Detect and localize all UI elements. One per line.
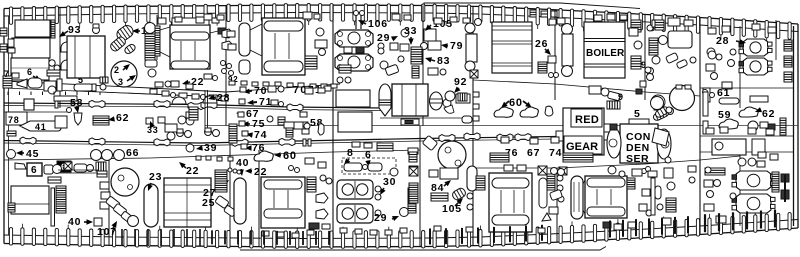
bar top boxes 333-420: [340, 228, 347, 233]
E1b connector and pentagons: [218, 28, 226, 34]
torpedo cylinder item 41: [20, 121, 61, 131]
starboard shaft coupling 1: [20, 137, 36, 144]
dark box pair 655: [655, 20, 664, 30]
E6 wedge: [583, 180, 585, 184]
starboard shaft coupling 5: [439, 134, 455, 141]
box and hatch below 66 circles: [99, 163, 105, 168]
fitting row y82 mid: [229, 81, 235, 85]
condensate pumps below condenser: [608, 166, 616, 174]
dark pump block far left: [3, 76, 12, 88]
small boxes row engine room y90: [150, 89, 157, 94]
long striped box 563: [563, 153, 593, 162]
transverse bulkhead x=423 upper: [422, 6, 424, 127]
floor line upper right: [473, 80, 700, 96]
floor line y118 mid: [380, 117, 473, 119]
wedge trough left: [15, 163, 26, 169]
scotch boiler SB2: [743, 58, 768, 75]
dark hatch box 705 lower: [705, 168, 725, 175]
pump cylinder right of 6 box: [44, 165, 53, 174]
boiler water drum left: [562, 24, 573, 35]
small boxes above boilers: [708, 28, 716, 34]
dark uptake junction: [339, 65, 351, 73]
pump cylinders in dashed box: [344, 163, 362, 171]
SB3 SB4 aux circles: [714, 180, 721, 187]
diagonal striped pipe below drum: [109, 35, 127, 52]
transverse bulkhead x=473 full: [472, 6, 474, 245]
starboard shaft coupling 2: [89, 138, 105, 145]
platform line y92 engine room: [100, 92, 226, 97]
boiler casing with BOILER text: [584, 22, 625, 78]
hull left edge: [3, 9, 5, 244]
svg-text:6: 6: [365, 149, 372, 161]
casing clutter boxes x530: [530, 10, 537, 17]
svg-text:92: 92: [454, 76, 467, 88]
svg-text:29: 29: [374, 212, 387, 224]
boiler B1 unit 2: [335, 54, 373, 71]
figure-8 pipes: [647, 68, 654, 75]
port shaft coupling 3: [154, 100, 170, 107]
svg-text:29: 29: [377, 32, 390, 44]
small circles lower-mid: [467, 193, 473, 199]
box for 26: [548, 56, 556, 63]
frame ticks top side: [9, 7, 12, 25]
scotch boiler inner walls upper: [700, 87, 793, 89]
circle pair right of E5: [551, 168, 558, 175]
car blob 2 under casing: [520, 107, 538, 117]
small circles x478: [475, 19, 482, 26]
svg-text:BOILER: BOILER: [586, 48, 625, 59]
tilted shapes near 645 y60: [666, 53, 679, 64]
small box left column: [557, 18, 565, 24]
coupling gear-condenser: [604, 124, 611, 140]
svg-text:26: 26: [535, 38, 548, 50]
vertical pipe x206: [204, 90, 206, 128]
white boxes x205 y75: [204, 74, 212, 79]
clutter column 663-690 lower: [665, 157, 671, 163]
pump cluster y125 right wing: [748, 121, 758, 131]
E2b turbine dome left: [379, 84, 391, 116]
xbox x409 lower: [409, 166, 418, 175]
transverse bulkhead x=259 lower: [258, 150, 260, 247]
main engine E2: [262, 18, 305, 75]
boxes 300-330 y155-172: [305, 158, 314, 164]
svg-text:60: 60: [283, 150, 297, 162]
E1b wedge: [160, 27, 170, 30]
pump circles row for 66: [91, 150, 102, 161]
tank rect upper-left C: [11, 58, 49, 80]
hull bottom sheer line: [4, 228, 798, 247]
svg-text:33: 33: [404, 25, 417, 37]
E2b dome right hatched: [430, 92, 443, 110]
dark hatch right of E6: [627, 178, 635, 189]
small boxes row mid y118: [267, 116, 273, 122]
car blob below 59: [719, 119, 738, 129]
main engine port E1: [67, 36, 105, 78]
circle in chain: [128, 216, 139, 227]
hatch box 478 lower: [476, 176, 485, 190]
main engine centre E2b: [392, 84, 428, 116]
hatch box top x47: [47, 70, 60, 76]
boxes x294 y122: [294, 122, 303, 129]
striped drum column x145: [145, 23, 156, 34]
tank rect upper-left B: [12, 38, 50, 58]
dark block below 78 box: [7, 131, 16, 136]
svg-text:74: 74: [549, 147, 562, 159]
starboard propeller shaft line: [4, 137, 556, 144]
E2 dark foundation: [305, 56, 317, 69]
boiler casing centre: [492, 22, 532, 73]
bottom band long bars right: [704, 214, 706, 232]
svg-text:78: 78: [8, 115, 20, 125]
transverse bulkhead x=645 upper: [644, 14, 646, 100]
hatch column right of tanks: [51, 20, 55, 38]
tilted chain below circle: [105, 196, 120, 210]
band boxes 430-470: [434, 18, 442, 24]
small boxes row mid y103: [271, 100, 278, 105]
tiny circle cluster x225: [221, 61, 226, 66]
hatch below 6 box: [48, 177, 61, 183]
bottom band long bars centre-right: [609, 221, 611, 238]
deck casing line bottom: [240, 247, 606, 251]
transverse bulkhead x=226 upper: [225, 6, 227, 126]
dark funnel blob: [631, 20, 641, 32]
band boxes 205-222: [204, 14, 212, 20]
hatch ladder x229: [229, 124, 237, 143]
centreline joint: [205, 125, 798, 127]
rect x752 y139: [752, 139, 765, 155]
hatch box right of E4: [307, 177, 316, 192]
svg-text:RED: RED: [575, 114, 599, 126]
svg-text:67: 67: [527, 147, 540, 159]
right column aux 628-645: [629, 28, 638, 36]
small boxes row mid y88: [268, 86, 276, 92]
boiler B1 unit 1: [335, 30, 373, 47]
xbox lower-left: [64, 162, 72, 170]
transverse bulkhead x=109 lower: [108, 160, 110, 245]
scotch boiler SB3: [736, 171, 771, 190]
hatch ladder x408 lower: [408, 188, 416, 213]
tank rect upper-left A: [15, 20, 50, 37]
boxes right column mid band: [300, 112, 307, 117]
capsule right of 5: [74, 84, 93, 91]
svg-text:22: 22: [254, 166, 267, 178]
left edge dark mark 1: [0, 28, 7, 36]
rounded box right of circle: [145, 60, 157, 67]
main engine lower-left E3: [164, 178, 211, 227]
car blob lower 60: [254, 151, 273, 161]
dark box at band 603: [603, 222, 611, 228]
xbox right of E5: [538, 166, 547, 175]
transverse bulkhead x=420 lower: [419, 126, 421, 247]
svg-text:105: 105: [442, 203, 462, 215]
dark boxes below right of E4: [309, 223, 319, 229]
aft engine E6 block: [585, 176, 627, 218]
E2 aux right cluster: [316, 28, 324, 36]
scotch boiler SB4: [736, 194, 771, 213]
dark box y124 x610: [610, 124, 617, 130]
pump column x100: [100, 182, 109, 189]
svg-text:45: 45: [26, 148, 39, 160]
svg-text:22: 22: [186, 165, 199, 177]
deck casing line top: [424, 3, 640, 9]
box and circle right of 33: [165, 124, 177, 132]
white boxes x703: [703, 88, 710, 102]
box x549 y19: [549, 19, 556, 25]
small aux right of B1: [378, 43, 384, 49]
box right of 41: [55, 116, 67, 128]
boxes right edge 333-420 lower: [408, 148, 418, 154]
small clutter above y90 row: [155, 82, 163, 87]
dark box x409 y152: [409, 152, 417, 162]
svg-text:6: 6: [27, 67, 33, 77]
shaft couplings x196 x209: [188, 102, 204, 109]
GEAR box: [564, 136, 602, 154]
capsule drum left of E3: [144, 184, 158, 227]
small circles below B1: [337, 77, 343, 83]
platform tick fittings left: [7, 92, 9, 96]
scotch boiler inner walls lower: [700, 151, 793, 153]
triangle x543 y216: [542, 213, 551, 221]
wall x776 upper: [775, 20, 777, 60]
svg-text:40: 40: [68, 216, 81, 228]
xbox x470: [470, 70, 478, 78]
dark capsule x490: [490, 153, 509, 162]
boiler front wall line y136: [700, 135, 793, 137]
xbox 559 lower: [559, 167, 567, 175]
aux cluster 650-698 y80-110: [640, 81, 646, 87]
elbow duct mid: [278, 117, 285, 125]
pentagon blobs right of E4: [316, 193, 328, 203]
scotch boiler SB1: [743, 39, 768, 56]
label 33 mid with boxes: [146, 118, 153, 124]
boxes y165 lower-mid: [504, 165, 513, 171]
SB aux circles: [730, 49, 736, 55]
svg-text:39: 39: [204, 142, 217, 154]
rounded box x463 y117: [462, 116, 472, 123]
E2 side drum lower: [239, 60, 250, 74]
box x549 y207: [549, 207, 558, 214]
svg-text:6: 6: [31, 165, 37, 176]
condenser body: [620, 124, 658, 163]
boxes at bar tops lower-mid: [262, 231, 269, 236]
hatch ladder x547: [547, 174, 555, 190]
main engine lower-mid E4: [261, 177, 305, 228]
dark hatch left of 5: [607, 101, 620, 109]
hatch box lower-left x96: [96, 162, 106, 171]
svg-text:23: 23: [149, 171, 162, 183]
xbox x409 y167: [409, 167, 418, 176]
tilted box left of distiller: [422, 135, 438, 150]
svg-text:SER: SER: [626, 153, 649, 165]
pipe line y112 left: [4, 111, 70, 113]
small boxes 690 lower: [688, 166, 696, 172]
uptake pipes above B1: [355, 13, 357, 29]
svg-text:83: 83: [437, 55, 450, 67]
dark hatch left of circle: [100, 77, 108, 83]
svg-text:93: 93: [68, 24, 81, 36]
tilted striped drum (item 1): [115, 23, 136, 43]
svg-text:8: 8: [347, 147, 354, 159]
boxes above boilers lower wing: [706, 128, 714, 134]
tank rect lower-left R3: [11, 186, 49, 214]
bulkhead boxes x474: [473, 92, 479, 97]
dark hatch column x215 lower: [215, 170, 227, 192]
drum right of E5: [539, 178, 547, 208]
svg-text:7: 7: [4, 69, 10, 79]
svg-text:71: 71: [259, 96, 272, 108]
svg-text:60: 60: [509, 97, 523, 109]
shaft coupling x472: [464, 133, 480, 140]
transverse bulkhead x=230 lower: [229, 126, 231, 246]
vertical pipes bottom band mid: [429, 229, 431, 245]
bar top boxes 430-550: [434, 226, 441, 231]
hatch tall box 83: [411, 47, 422, 64]
circles right of E4: [320, 175, 326, 181]
dark block left of R3: [8, 203, 15, 212]
starboard shaft coupling 4: [232, 139, 248, 146]
floor line lower left: [4, 150, 420, 160]
boxes 755-780 y152: [758, 152, 766, 158]
transverse bulkhead x=700 full: [699, 18, 701, 235]
vent mushroom above engine: [93, 27, 100, 34]
boxes circles row y160 right wing: [738, 158, 746, 166]
double circles x551: [549, 73, 554, 78]
big box y139 right wing: [712, 139, 746, 155]
long pipe lines above engine lower-left: [58, 169, 98, 171]
shaft flange pair x305: [303, 139, 306, 146]
clutter 700-740 lower: [705, 167, 711, 173]
boxed 6 lower-left: [27, 163, 42, 176]
vertical pipes bottom band left-mid: [211, 230, 213, 244]
long thin box y96: [54, 96, 77, 101]
svg-text:28: 28: [716, 35, 729, 47]
big pump circle 682: [670, 86, 695, 111]
right inner column hatch: [772, 172, 779, 192]
funnel small boxes top: [652, 20, 662, 27]
svg-text:40: 40: [236, 157, 249, 169]
circulating pump circle right: [651, 97, 664, 110]
hatched escape trunk: [56, 186, 66, 213]
box for 75: [239, 121, 245, 126]
hull right edge: [797, 24, 799, 228]
aux engine left of boiler room wall: [336, 90, 370, 107]
right column hatch boxes lower: [781, 174, 789, 182]
left bars x703: [703, 92, 708, 116]
platform edge second line upper left: [4, 88, 226, 97]
vertical hatch x190 mid: [189, 107, 198, 120]
main engine E5 lower portrait: [489, 173, 532, 232]
box pair y45: [390, 43, 398, 50]
RED box: [571, 109, 602, 127]
svg-text:25: 25: [202, 197, 215, 209]
boxes above 76 67 74: [501, 137, 509, 143]
tiny circles cluster x230: [228, 168, 232, 172]
right column hatch boxes upper: [784, 40, 792, 51]
casing drum column left: [465, 23, 475, 33]
dark hatch x538: [538, 62, 547, 73]
tilted striped box for 105: [451, 187, 467, 201]
circle column x557 lower: [557, 175, 563, 181]
small striped roll: [123, 43, 136, 55]
small box left of 84 box: [429, 170, 438, 177]
svg-text:79: 79: [450, 40, 463, 52]
extra circles 645-700: [645, 67, 651, 73]
B2 lower aux circles: [375, 186, 381, 192]
starboard shaft coupling 3: [154, 139, 170, 146]
svg-text:62: 62: [116, 112, 129, 124]
svg-text:66: 66: [126, 147, 139, 159]
hatch box for 62: [93, 116, 109, 125]
boiler front wall x=740 upper: [739, 26, 741, 108]
hatch capsule x377 lower: [377, 143, 393, 151]
car blob 1 under casing: [494, 107, 513, 117]
feed pump cluster 79: [428, 41, 441, 50]
side boxes left of tanks: [8, 39, 14, 47]
bottle below 58: [318, 124, 324, 135]
tiny fittings on floor line: [196, 156, 201, 160]
tilt box x556 y194: [549, 189, 562, 200]
main engine E1b: [170, 25, 210, 69]
wall segment x157: [156, 15, 158, 60]
svg-text:84: 84: [431, 182, 444, 194]
pump circles below tanks: [49, 60, 55, 66]
box for 105: [424, 29, 436, 41]
aft drum x234: [234, 178, 246, 224]
big boiler end circle lower-left: [111, 168, 139, 196]
starboard shaft coupling 6: [497, 134, 513, 141]
shaft big coupling x287: [279, 138, 295, 145]
port shaft coupling 2: [89, 100, 105, 107]
band boxes above casing: [594, 15, 602, 21]
E6 drum left: [571, 176, 583, 219]
left edge dark mark 2: [0, 44, 7, 52]
car blob right of 59: [739, 107, 758, 117]
port propeller shaft line: [4, 103, 381, 108]
label 78 in box: [6, 112, 27, 125]
hull bottom inner margin line: [4, 220, 798, 239]
pump unit 670: [668, 31, 692, 48]
valve shield for 58: [74, 113, 82, 125]
dark hatch near 105: [431, 193, 448, 201]
svg-text:106: 106: [368, 18, 388, 30]
aux boxes 423-473: [428, 68, 438, 75]
pipes between B1 units: [344, 47, 352, 53]
boiler front wall x=740 lower: [739, 150, 741, 226]
pear shape right of cars: [545, 106, 553, 116]
svg-text:30: 30: [383, 176, 396, 188]
tilted striped pipe 661: [652, 108, 669, 121]
gear input coupling: [556, 131, 563, 141]
condenser end cap left: [607, 128, 621, 158]
transverse bulkhead x=557 lower: [556, 168, 558, 242]
hatch ladder x409 y183: [409, 183, 418, 203]
big evaporator circle: [111, 61, 137, 87]
reduction gear outer box: [563, 108, 604, 155]
port shaft coupling 4: [287, 104, 303, 111]
starboard shaft coupling 7: [515, 134, 531, 141]
frame ticks bottom side: [9, 228, 12, 246]
pump train below 6: [17, 79, 27, 88]
svg-text:28: 28: [217, 92, 230, 104]
cluster right of E2b: [443, 99, 451, 107]
tilted boxes for 25: [215, 195, 229, 208]
label 1 with arrow: [139, 30, 141, 32]
transverse bulkhead x=333 full: [332, 5, 334, 247]
column x642-660 lower: [642, 169, 647, 174]
boiler pair lower B2 unit1: [337, 180, 373, 199]
circle for 29 upper: [401, 29, 409, 37]
capsule drum x467: [467, 166, 477, 191]
